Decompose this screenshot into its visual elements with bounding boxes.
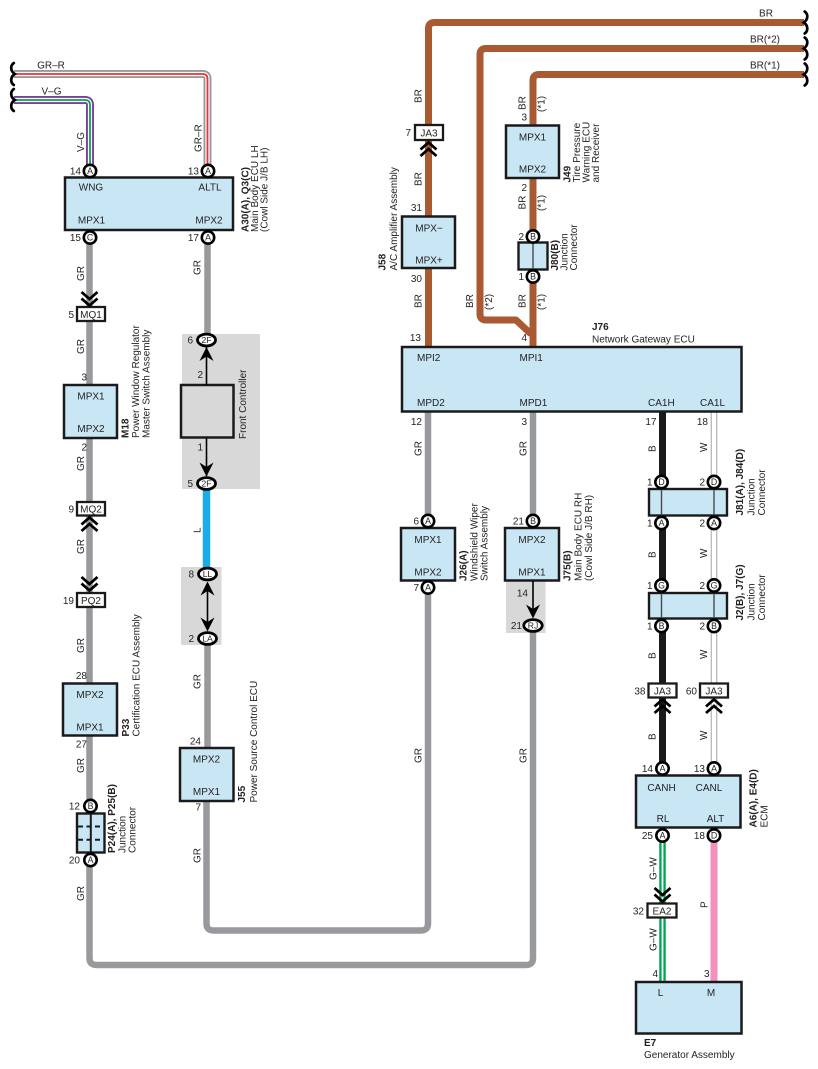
chevron up below JA3 60 [706,700,722,714]
J81 pin 1 D [655,476,667,488]
svg-text:EA2: EA2 [653,906,672,917]
svg-text:(*1): (*1) [537,294,548,310]
svg-text:30: 30 [411,274,423,285]
svg-text:GR: GR [193,674,204,689]
FC arrow line top [206,347,208,385]
squiggle BR right [804,12,808,34]
chevron up below MQ2 [82,518,98,532]
svg-text:Connector: Connector [757,574,768,621]
J81 pin 2 A [708,517,720,529]
svg-text:BR: BR [518,294,529,308]
svg-text:1: 1 [647,622,653,633]
svg-text:MPX1: MPX1 [76,723,104,734]
svg-text:BR(*2): BR(*2) [750,35,780,46]
svg-text:MQ2: MQ2 [80,504,102,515]
svg-text:20: 20 [69,856,81,867]
svg-text:Connector: Connector [757,469,768,516]
svg-text:MPX2: MPX2 [77,424,105,435]
svg-text:CANL: CANL [696,783,723,794]
svg-text:MPX2: MPX2 [195,216,223,227]
TEXT LAYER [37,9,780,98]
svg-text:2: 2 [521,183,527,194]
svg-text:6: 6 [187,336,193,347]
chevron down above EA2 [655,888,671,902]
svg-text:GR: GR [519,441,530,456]
svg-text:14: 14 [642,764,654,775]
svg-text:BR: BR [414,172,425,186]
svg-text:2: 2 [81,443,87,454]
svg-text:L: L [658,988,664,999]
small box texts [80,128,723,917]
svg-text:2: 2 [188,634,194,645]
svg-text:A: A [425,583,431,593]
svg-text:J75(B): J75(B) [563,550,574,581]
svg-text:Main Body ECU RH: Main Body ECU RH [574,493,585,581]
pin 17 A [202,231,214,243]
svg-text:A6(A), E4(D): A6(A), E4(D) [749,769,760,827]
svg-text:18: 18 [697,417,709,428]
svg-text:ALTL: ALTL [198,183,222,194]
chevron up below JA3 38 [655,700,671,714]
svg-text:1: 1 [518,272,524,283]
svg-text:8: 8 [188,570,194,581]
svg-text:GR: GR [76,539,87,554]
svg-text:CANH: CANH [647,783,675,794]
wire BR(*2) [480,49,804,335]
svg-text:Switch Assembly: Switch Assembly [480,506,491,581]
J81 box [649,489,727,516]
svg-text:MPX1: MPX1 [78,216,106,227]
svg-text:G–W: G–W [649,928,660,951]
J55 box [180,748,234,801]
svg-text:W: W [699,730,710,740]
svg-text:GR–R: GR–R [194,124,205,152]
RJ shade [506,581,546,634]
svg-text:A: A [711,518,717,528]
J2 pin 2 B [708,620,720,632]
svg-text:14: 14 [517,589,529,600]
svg-text:V–G: V–G [76,132,87,152]
J81 dividers [661,490,663,516]
svg-text:2: 2 [699,622,705,633]
svg-text:C: C [87,233,94,243]
svg-text:9: 9 [68,505,74,516]
svg-text:19: 19 [63,596,75,607]
svg-text:A: A [660,831,666,841]
squiggle BR2 right [804,38,808,60]
svg-text:2: 2 [699,478,705,489]
svg-text:BR: BR [465,294,476,308]
svg-text:2: 2 [518,232,524,243]
svg-text:21: 21 [511,621,523,632]
svg-text:E7: E7 [644,1038,657,1049]
svg-text:17: 17 [645,417,657,428]
svg-text:3: 3 [704,969,710,980]
wire W CA1L [711,412,718,769]
svg-text:MPX1: MPX1 [519,133,547,144]
svg-text:MPX2: MPX2 [518,535,546,546]
svg-text:3: 3 [81,373,87,384]
rotated wire labels [76,89,711,951]
svg-text:13: 13 [188,167,200,178]
svg-text:7: 7 [413,583,419,594]
svg-text:B: B [648,733,659,740]
wire BR(*1) [533,75,804,348]
component pin name texts [76,133,725,1000]
svg-text:25: 25 [642,831,654,842]
svg-text:J55: J55 [237,785,248,802]
squiggle BR1 right [804,64,808,86]
svg-text:B: B [648,652,659,659]
svg-text:GR: GR [76,886,87,901]
svg-text:JA3: JA3 [654,686,672,697]
wire GR-R (striped) [14,74,208,165]
svg-text:A: A [88,855,94,865]
EA2 box [648,904,677,918]
JA3 38 box [649,684,677,698]
svg-text:M: M [707,988,715,999]
svg-text:12: 12 [69,802,81,813]
E7 box [636,982,742,1034]
svg-text:24: 24 [190,737,202,748]
svg-text:5: 5 [187,479,193,490]
svg-text:D: D [711,831,717,841]
svg-text:Junction: Junction [747,583,758,620]
svg-text:1: 1 [647,478,653,489]
svg-text:G: G [658,581,665,591]
svg-text:MPI2: MPI2 [417,353,441,364]
svg-text:Certification ECU Assembly: Certification ECU Assembly [132,614,143,736]
svg-text:B: B [648,445,659,452]
component name labels [107,122,771,1061]
svg-text:3: 3 [521,113,527,124]
MQ1 box [77,307,105,321]
svg-text:W: W [699,442,710,452]
svg-text:BR(*1): BR(*1) [750,61,780,72]
svg-text:GR: GR [76,638,87,653]
svg-text:MPI1: MPI1 [520,353,544,364]
ECM pin 25 A [656,829,668,841]
svg-text:LL: LL [203,569,213,579]
squiggle GR-R left [11,63,15,85]
svg-text:(*1): (*1) [537,195,548,211]
M18 box [64,385,117,438]
svg-text:14: 14 [70,167,82,178]
ECM pin 18 D [708,829,720,841]
front controller white box [181,385,234,438]
svg-text:GR: GR [76,339,87,354]
svg-text:J76: J76 [592,322,609,333]
junction connector boxes [77,243,727,853]
P24 pin 20 A [84,854,96,866]
J2 pin 1 B [655,620,667,632]
svg-text:18: 18 [694,831,706,842]
svg-text:GR: GR [76,266,87,281]
svg-text:MPX1: MPX1 [193,787,221,798]
J49 box [506,126,559,179]
svg-text:3: 3 [521,417,527,428]
svg-text:5: 5 [68,310,74,321]
svg-text:JA3: JA3 [705,686,723,697]
LL-LA arrow [207,588,209,625]
front controller shade [182,334,260,489]
svg-text:JA3: JA3 [420,128,438,139]
svg-text:BR: BR [414,294,425,308]
wire G-W (striped) [659,842,666,982]
svg-text:MPX2: MPX2 [414,568,442,579]
oval LA [199,633,217,645]
P24 box [77,814,105,853]
svg-text:B: B [88,801,94,811]
J81 pin 1 A [655,517,667,529]
J80 pin 2 B [527,230,539,242]
svg-text:27: 27 [76,740,88,751]
svg-text:38: 38 [634,687,646,698]
svg-text:A: A [660,764,666,774]
svg-text:(Cowl Side J/B RH): (Cowl Side J/B RH) [584,495,595,581]
J26 pin 7 A [422,581,434,593]
svg-text:MPX1: MPX1 [414,535,442,546]
svg-text:4: 4 [521,333,527,344]
wire P pink [711,842,718,982]
svg-text:GR: GR [414,748,425,763]
svg-text:B: B [711,621,717,631]
svg-text:(*1): (*1) [537,96,548,112]
chevron down above PQ2 [82,577,98,591]
svg-text:MPX2: MPX2 [76,690,104,701]
svg-text:LA: LA [202,634,213,644]
svg-text:28: 28 [76,671,88,682]
FC arrowhead down [200,463,214,477]
svg-text:Master Switch Assembly: Master Switch Assembly [142,330,153,438]
svg-text:G–W: G–W [649,857,660,880]
COMPONENT BOXES [63,126,742,1034]
pin 13 A [202,165,214,177]
svg-text:GR: GR [519,748,530,763]
svg-text:ALT: ALT [707,814,725,825]
svg-text:GR: GR [414,441,425,456]
JA3 top box [415,125,443,140]
svg-text:7: 7 [195,803,201,814]
svg-text:CA1H: CA1H [648,398,675,409]
chevron up below JA3 top [421,143,437,157]
svg-text:J81(A), J84(D): J81(A), J84(D) [735,449,746,516]
wire GR column B bottom [207,592,429,931]
wire L blue [203,489,211,568]
oval LL [199,568,217,580]
svg-text:1: 1 [647,519,653,530]
svg-text:21: 21 [513,517,525,528]
ECM pin 14 A [656,762,668,774]
svg-text:13: 13 [410,333,422,344]
svg-text:4: 4 [652,969,658,980]
svg-text:B: B [530,272,536,282]
J2 pin 2 G [708,579,720,591]
svg-text:ECM: ECM [760,805,771,827]
svg-text:B: B [530,232,536,242]
wire GR column B top [204,244,211,334]
ECM box [636,776,741,828]
svg-text:BR: BR [759,9,773,20]
J76 box [402,347,742,412]
svg-text:M18: M18 [121,418,132,438]
svg-text:32: 32 [633,907,645,918]
svg-text:W: W [699,548,710,558]
J81 pin 2 D [708,476,720,488]
circle letters [87,166,718,865]
P24 pin 12 B [84,800,96,812]
svg-text:MPD1: MPD1 [520,398,548,409]
svg-text:Network Gateway ECU: Network Gateway ECU [592,335,695,346]
P24 grid [78,814,104,852]
oval RJ [524,620,542,632]
J26 box [401,528,455,581]
J80 divider [532,243,534,269]
svg-text:12: 12 [411,417,423,428]
front controller internals [200,347,541,632]
wire B CA1H [659,412,666,769]
FC arrow line bottom [206,438,208,477]
svg-text:RL: RL [657,814,670,825]
svg-text:A: A [205,166,211,176]
svg-text:D: D [711,477,717,487]
svg-text:V–G: V–G [41,87,61,98]
svg-text:2F: 2F [201,479,211,489]
wire GR column A [90,244,534,965]
svg-text:L: L [193,527,204,533]
svg-text:J26(A): J26(A) [459,550,470,581]
svg-text:Power Window Regulator: Power Window Regulator [131,325,142,438]
svg-text:J2(B), J7(G): J2(B), J7(G) [735,564,746,620]
svg-text:GR: GR [193,260,204,275]
svg-text:(Cowl Side J/B LH): (Cowl Side J/B LH) [260,148,271,232]
PQ2 box [77,593,105,607]
J80 box [519,243,548,270]
J58 box [402,217,455,269]
svg-text:GR: GR [193,848,204,863]
wire GR MPD1 [530,412,537,522]
svg-text:J58: J58 [378,253,389,270]
svg-text:MPX−: MPX− [415,224,443,235]
svg-text:W: W [699,649,710,659]
svg-text:P33: P33 [121,718,132,736]
oval 2F bottom [198,478,216,490]
svg-text:2F: 2F [201,335,211,345]
svg-text:13: 13 [694,764,706,775]
pin circles [84,165,720,866]
svg-text:GR: GR [76,456,87,471]
oval 2F top [198,334,216,346]
svg-text:A: A [87,166,93,176]
ECU A30 box [65,178,233,231]
svg-text:MPX2: MPX2 [519,165,547,176]
J80 pin 1 B [527,270,539,282]
svg-text:D: D [658,477,664,487]
svg-text:RJ: RJ [528,621,539,631]
svg-text:Front Controller: Front Controller [238,369,249,439]
svg-text:A: A [425,516,431,526]
wire V-G (striped) [14,100,90,165]
svg-text:MQ1: MQ1 [80,310,102,321]
svg-text:A: A [711,764,717,774]
svg-text:15: 15 [70,233,82,244]
svg-text:BR: BR [414,89,425,103]
FC arrowhead up [200,347,214,361]
svg-text:Power Source Control ECU: Power Source Control ECU [249,681,260,803]
J75 pin 21 B [527,515,539,527]
chevrons [82,143,723,902]
wire GR MPD2 [425,412,432,522]
svg-text:A/C Amplifier Assembly: A/C Amplifier Assembly [389,167,400,270]
continuation squiggles [11,12,807,112]
J75 box [505,528,559,581]
svg-text:and Receiver: and Receiver [591,123,602,183]
svg-text:6: 6 [413,517,419,528]
svg-text:Generator Assembly: Generator Assembly [644,1050,735,1061]
J26 pin 6 A [422,515,434,527]
svg-text:17: 17 [188,233,200,244]
svg-text:60: 60 [686,687,698,698]
LL LA shade [181,567,222,645]
svg-text:GR–R: GR–R [37,61,65,72]
svg-text:A: A [205,233,211,243]
svg-text:BR: BR [518,196,529,210]
pin 14 A [84,165,96,177]
svg-text:MPX+: MPX+ [415,256,443,267]
svg-text:(*2): (*2) [484,294,495,310]
svg-text:MPX2: MPX2 [193,755,221,766]
svg-text:Connector: Connector [128,806,139,853]
svg-text:WNG: WNG [79,183,104,194]
J2 pin 1 G [655,579,667,591]
J2 box [649,593,727,619]
svg-text:B: B [530,516,536,526]
squiggle V-G left [11,89,15,111]
svg-text:MPX1: MPX1 [77,392,105,403]
svg-text:B: B [659,621,665,631]
svg-text:2: 2 [699,519,705,530]
ECM pin 13 A [708,762,720,774]
pin 15 C [84,231,96,243]
svg-text:Connector: Connector [569,224,580,271]
svg-text:PQ2: PQ2 [81,596,101,607]
chevron down above MQ1 [82,292,98,306]
MQ2 box [77,502,105,516]
svg-text:BR: BR [518,96,529,110]
ovals [198,334,543,644]
small white connector boxes [77,125,728,918]
svg-text:1: 1 [197,443,203,454]
svg-text:P24(A), P25(B): P24(A), P25(B) [107,784,118,853]
P33 box [63,684,117,736]
svg-text:CA1L: CA1L [700,398,725,409]
svg-text:G: G [711,581,718,591]
svg-text:MPX1: MPX1 [518,568,546,579]
svg-text:P: P [700,901,711,908]
svg-text:B: B [648,551,659,558]
J2 dividers [661,594,663,619]
wire BR top [429,23,805,348]
JA3 60 box [700,684,728,698]
svg-text:GR: GR [76,758,87,773]
svg-text:A: A [659,518,665,528]
svg-text:2: 2 [197,370,203,381]
svg-text:1: 1 [647,581,653,592]
svg-text:31: 31 [411,203,423,214]
svg-text:7: 7 [405,128,411,139]
svg-text:2: 2 [699,581,705,592]
svg-text:MPD2: MPD2 [417,398,445,409]
